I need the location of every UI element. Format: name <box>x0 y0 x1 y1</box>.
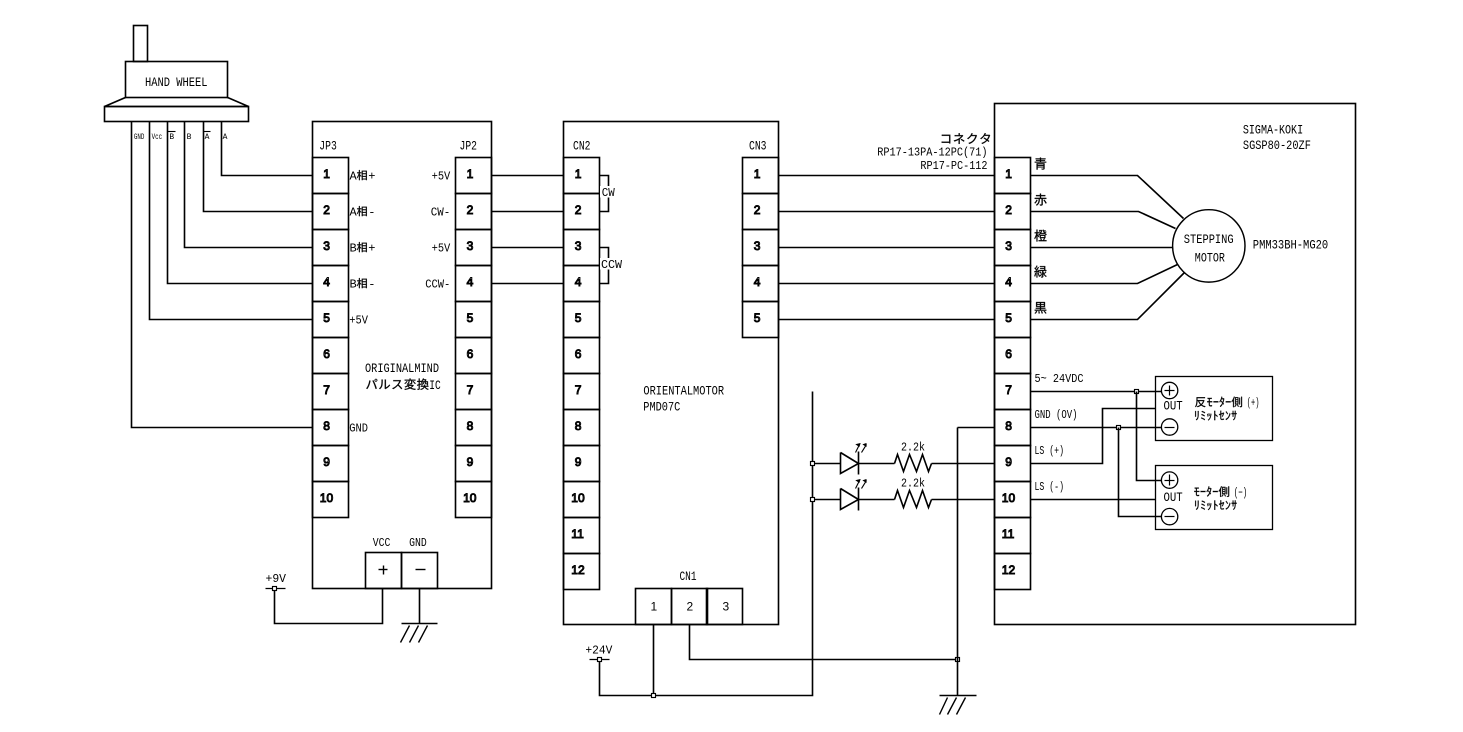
svg-text:B: B <box>350 277 357 291</box>
wire pin1 blue to motor <box>1031 176 1184 219</box>
svg-text:CCW: CCW <box>601 258 623 272</box>
junction CN1 pin1 rail <box>652 694 656 698</box>
wire JP2 pin3 to CN2 pin3 <box>492 247 564 249</box>
svg-text:PMM33BH-MG20: PMM33BH-MG20 <box>1253 238 1328 253</box>
svg-text:A: A <box>223 133 228 142</box>
svg-text:VCC: VCC <box>373 536 391 550</box>
LED D1 arrows <box>856 445 860 453</box>
connector CN3 pin 2 <box>743 194 779 230</box>
svg-text:2.2k: 2.2k <box>901 440 925 454</box>
svg-text:4: 4 <box>575 275 582 289</box>
svg-text:6: 6 <box>323 347 330 361</box>
wire resistor to connector pin9 <box>932 463 995 465</box>
svg-text:GND: GND <box>349 421 368 435</box>
connector JP2 pin 3 <box>456 230 492 266</box>
svg-text:1: 1 <box>323 167 330 181</box>
connector CN1 pin 2 <box>672 589 708 625</box>
hand wheel shaft <box>134 26 148 62</box>
stage connector pin 9 <box>995 446 1031 482</box>
connector JP2 pin 2 <box>456 194 492 230</box>
svg-text:JP2: JP2 <box>460 138 478 153</box>
node square at +24V <box>598 658 602 662</box>
wire GND box to ground <box>419 589 421 624</box>
svg-text:2.2k: 2.2k <box>901 477 925 491</box>
wire CN3 pin2 to connector pin2 <box>779 211 995 213</box>
svg-text:A: A <box>205 133 210 142</box>
connector CN1 pin 3 <box>707 589 743 625</box>
svg-text:7: 7 <box>467 383 474 397</box>
svg-text:9: 9 <box>1005 455 1012 469</box>
svg-text:2: 2 <box>467 203 474 217</box>
power +24V terminal <box>590 659 610 661</box>
svg-text:5: 5 <box>754 311 761 325</box>
svg-text:10: 10 <box>320 491 334 505</box>
svg-text:6: 6 <box>575 347 582 361</box>
svg-text:5: 5 <box>323 311 330 325</box>
CCW bracket CN2 pins 3-4 <box>600 248 609 284</box>
svg-text:6: 6 <box>467 347 474 361</box>
sensor2 plus terminal <box>1161 472 1177 488</box>
svg-text:10: 10 <box>1002 491 1016 505</box>
overline for /B <box>168 131 176 133</box>
resistor R1 2.2k <box>895 455 932 472</box>
svg-text:STEPPING: STEPPING <box>1184 232 1234 247</box>
wire CN3 pin1 to connector pin1 <box>779 175 995 177</box>
connector JP2 pin 6 <box>456 338 492 374</box>
LED D2 <box>841 489 859 510</box>
wire resistor to connector pin10 <box>932 499 995 501</box>
minus symbol in GND box <box>416 569 426 571</box>
wire color label blue <box>1035 158 1046 170</box>
svg-text:4: 4 <box>323 275 330 289</box>
svg-text:-: - <box>368 205 375 219</box>
connector CN2 pin 5 <box>564 302 600 338</box>
svg-text:SIGMA-KOKI: SIGMA-KOKI <box>1243 122 1303 137</box>
svg-text:5: 5 <box>1005 311 1012 325</box>
stage connector pin 7 <box>995 374 1031 410</box>
connector JP2 pin 4 <box>456 266 492 302</box>
connector CN3 pin 3 <box>743 230 779 266</box>
plus symbol in VCC box <box>379 569 388 571</box>
svg-text:3: 3 <box>754 239 761 253</box>
svg-text:JP3: JP3 <box>319 138 337 153</box>
connector CN2 pin 7 <box>564 374 600 410</box>
svg-text:RP17-PC-112: RP17-PC-112 <box>920 159 987 173</box>
connector CN2 pin 12 <box>564 554 600 590</box>
connector JP3 pin 1 <box>313 158 349 194</box>
GND terminal box <box>402 553 438 589</box>
connector JP2 pin 9 <box>456 446 492 482</box>
wire /B to JP3 pin4 <box>168 122 313 284</box>
svg-text:3: 3 <box>723 600 730 614</box>
svg-text:B: B <box>169 133 174 142</box>
wire LED to resistor R1 <box>859 463 895 465</box>
overline for /A <box>204 131 211 133</box>
svg-text:ORIGINALMIND: ORIGINALMIND <box>365 361 439 376</box>
stepping motor circle <box>1173 210 1245 282</box>
svg-text:+5V: +5V <box>349 313 368 327</box>
connector JP2 pin 8 <box>456 410 492 446</box>
svg-text:10: 10 <box>463 491 477 505</box>
svg-text:6: 6 <box>1005 347 1012 361</box>
svg-text:9: 9 <box>575 455 582 469</box>
wire A to JP3 pin1 <box>222 122 313 176</box>
sensor1 minus terminal <box>1161 419 1177 435</box>
svg-text:4: 4 <box>467 275 474 289</box>
svg-text:SGSP80-20ZF: SGSP80-20ZF <box>1243 138 1311 153</box>
svg-text:2: 2 <box>323 203 330 217</box>
hand wheel body <box>126 62 228 98</box>
wire pin2 red to motor <box>1031 212 1176 229</box>
connector JP2 pin 1 <box>456 158 492 194</box>
svg-text:-: - <box>368 277 375 291</box>
wire GND to JP3 pin8 <box>132 122 313 428</box>
wire LED to resistor R2 <box>859 499 895 501</box>
svg-text:11: 11 <box>571 527 584 541</box>
wire pin10 to sensor2 OUT <box>1031 499 1156 501</box>
wire pin8 to sensor1 minus <box>1031 427 1162 429</box>
svg-text:9: 9 <box>467 455 474 469</box>
svg-text:+: + <box>368 169 375 183</box>
wire B to JP3 pin3 <box>185 122 313 248</box>
connector CN2 pin 9 <box>564 446 600 482</box>
connector JP3 pin 6 <box>313 338 349 374</box>
resistor R2 2.2k <box>895 491 932 508</box>
motor driver board outline <box>564 122 779 625</box>
connector CN3 pin 5 <box>743 302 779 338</box>
wire color label black <box>1035 302 1047 314</box>
wire pin5 black to motor <box>1031 273 1185 320</box>
connector JP3 pin 3 <box>313 230 349 266</box>
svg-text:OUT: OUT <box>1164 400 1184 414</box>
LED D1 <box>841 453 859 474</box>
ground symbol at bottom <box>940 695 977 697</box>
svg-text:3: 3 <box>575 239 582 253</box>
junction square LED row 2 <box>811 498 815 502</box>
connector CN2 pin 4 <box>564 266 600 302</box>
pulse converter board outline <box>313 122 492 589</box>
connector CN3 pin 4 <box>743 266 779 302</box>
svg-text:(+): (+) <box>1247 396 1260 410</box>
connector JP3 pin 8 <box>313 410 349 446</box>
connector JP3 pin 4 <box>313 266 349 302</box>
svg-text:GND (OV): GND (OV) <box>1035 408 1078 422</box>
svg-text:3: 3 <box>1005 239 1012 253</box>
sensor2 minus terminal <box>1161 508 1177 524</box>
svg-text:12: 12 <box>571 563 585 577</box>
svg-text:3: 3 <box>467 239 474 253</box>
svg-text:5: 5 <box>467 311 474 325</box>
connector CN1 pin 1 <box>636 589 672 625</box>
wire pin9 to sensor1 OUT <box>1031 409 1156 464</box>
svg-text:8: 8 <box>323 419 330 433</box>
connector JP3 pin 7 <box>313 374 349 410</box>
svg-text:4: 4 <box>754 275 761 289</box>
sensor1 name anti-motor side (+) limit sensor <box>1195 397 1205 407</box>
stage connector pin 6 <box>995 338 1031 374</box>
stage connector pin 12 <box>995 554 1031 590</box>
svg-text:1: 1 <box>651 600 658 614</box>
svg-text:1: 1 <box>575 167 582 181</box>
stage connector pin 3 <box>995 230 1031 266</box>
connector JP2 pin 5 <box>456 302 492 338</box>
junction square pin7 branch <box>1135 390 1139 394</box>
junction square pin8 branch <box>1117 426 1121 430</box>
wire color label red <box>1034 194 1046 206</box>
connector CN2 pin 3 <box>564 230 600 266</box>
connector CN3 pin 1 <box>743 158 779 194</box>
connector CN2 pin 10 <box>564 482 600 518</box>
hand wheel base flange <box>105 98 249 107</box>
svg-text:PMD07C: PMD07C <box>643 399 680 414</box>
wire JP2 pin1 to CN2 pin1 <box>492 175 564 177</box>
hand wheel pin labels GND Vcc /B B /A A <box>134 133 228 142</box>
sensor2 name motor side (-) limit sensor <box>1194 486 1217 496</box>
connector CN2 pin 11 <box>564 518 600 554</box>
power +9V terminal <box>266 588 286 590</box>
wire supply branch to sensor2 plus <box>1137 392 1162 481</box>
stage connector pin 1 <box>995 158 1031 194</box>
svg-text:5~ 24VDC: 5~ 24VDC <box>1035 372 1084 386</box>
limit sensor box 1 <box>1156 377 1273 441</box>
svg-text:2: 2 <box>1005 203 1012 217</box>
connector CN2 pin 2 <box>564 194 600 230</box>
svg-text:ORIENTALMOTOR: ORIENTALMOTOR <box>643 383 724 398</box>
connector CN2 pin 1 <box>564 158 600 194</box>
svg-text:8: 8 <box>1005 419 1012 433</box>
svg-text:12: 12 <box>1002 563 1016 577</box>
connector JP3 pin 5 <box>313 302 349 338</box>
junction CN1 pin2 ground rail <box>956 658 960 662</box>
stage connector pin 11 <box>995 518 1031 554</box>
wire CN3 pin4 to connector pin4 <box>779 283 995 285</box>
junction square LED row 1 <box>811 462 815 466</box>
stage connector pin 4 <box>995 266 1031 302</box>
connector CN2 pin 8 <box>564 410 600 446</box>
svg-text:B: B <box>350 241 357 255</box>
connector JP3 pin 2 <box>313 194 349 230</box>
svg-text:CW-: CW- <box>431 205 451 219</box>
svg-text:GND: GND <box>409 536 427 550</box>
svg-text:9: 9 <box>323 455 330 469</box>
svg-text:HAND WHEEL: HAND WHEEL <box>145 75 208 90</box>
wire pin3 orange to motor <box>1031 247 1173 249</box>
connector JP3 pin 9 <box>313 446 349 482</box>
wire /A to JP3 pin2 <box>204 122 313 212</box>
sensor1 plus terminal <box>1161 382 1177 398</box>
connector JP3 pin 10 <box>313 482 349 518</box>
svg-text:7: 7 <box>1005 383 1012 397</box>
svg-text:RP17-13PA-12PC(71): RP17-13PA-12PC(71) <box>877 146 987 160</box>
wire CN1 pin2 to ground rail <box>690 625 958 660</box>
svg-text:1: 1 <box>467 167 474 181</box>
svg-text:(−): (−) <box>1234 486 1248 500</box>
LED D2 arrows <box>856 481 860 489</box>
wire Vcc to JP3 pin5 <box>150 122 313 320</box>
svg-text:7: 7 <box>575 383 582 397</box>
svg-text:GND: GND <box>134 133 145 142</box>
svg-text:CN3: CN3 <box>749 138 767 153</box>
CW bracket CN2 pins 1-2 <box>600 176 609 212</box>
svg-text:IC: IC <box>429 379 441 393</box>
wire JP2 pin4 to CN2 pin4 <box>492 283 564 285</box>
ground rail vertical wire <box>957 428 959 696</box>
wire CN1 pin1 to 24V rail <box>653 625 655 696</box>
connector JP2 pin 10 <box>456 482 492 518</box>
node square at +9V <box>273 587 277 591</box>
svg-text:+: + <box>368 241 375 255</box>
svg-text:10: 10 <box>571 491 585 505</box>
svg-text:4: 4 <box>1005 275 1012 289</box>
wire CN3 pin5 to connector pin5 <box>779 319 995 321</box>
connector JP2 pin 7 <box>456 374 492 410</box>
svg-text:+9V: +9V <box>266 572 287 586</box>
svg-text:Vcc: Vcc <box>152 133 163 142</box>
svg-text:CCW-: CCW- <box>425 277 450 291</box>
svg-text:LS (+): LS (+) <box>1035 444 1065 458</box>
svg-text:2: 2 <box>754 203 761 217</box>
svg-text:B: B <box>187 133 192 142</box>
wire JP2 pin2 to CN2 pin2 <box>492 211 564 213</box>
board1 name pulse conversion IC <box>366 378 428 389</box>
svg-text:3: 3 <box>323 239 330 253</box>
stage connector pin 8 <box>995 410 1031 446</box>
svg-text:CW: CW <box>602 186 616 200</box>
svg-text:8: 8 <box>575 419 582 433</box>
connector header label (konekuta) <box>942 133 990 144</box>
svg-text:+24V: +24V <box>585 643 613 657</box>
wire +24V to LED supply rail <box>600 392 813 696</box>
wire gnd branch to sensor2 minus <box>1119 428 1162 517</box>
svg-text:1: 1 <box>1005 167 1012 181</box>
svg-text:8: 8 <box>467 419 474 433</box>
svg-text:5: 5 <box>575 311 582 325</box>
stage connector pin 10 <box>995 482 1031 518</box>
wire CN3 pin3 to connector pin3 <box>779 247 995 249</box>
wire ground rail to connector pin8 <box>958 427 995 429</box>
svg-text:7: 7 <box>323 383 330 397</box>
wire +9V to VCC terminal <box>275 589 383 624</box>
svg-text:CN1: CN1 <box>680 569 697 584</box>
limit sensor box 2 <box>1156 466 1273 530</box>
svg-text:+5V: +5V <box>432 241 451 255</box>
svg-text:11: 11 <box>1002 527 1015 541</box>
wire pin4 green to motor <box>1031 265 1178 284</box>
svg-text:OUT: OUT <box>1164 491 1184 505</box>
svg-text:1: 1 <box>754 167 761 181</box>
svg-text:LS (-): LS (-) <box>1035 480 1065 494</box>
svg-text:MOTOR: MOTOR <box>1195 251 1225 266</box>
hand wheel base plate <box>105 107 249 122</box>
stage connector pin 2 <box>995 194 1031 230</box>
svg-text:2: 2 <box>687 600 694 614</box>
stage connector pin 5 <box>995 302 1031 338</box>
VCC terminal box <box>366 553 402 589</box>
svg-text:+5V: +5V <box>432 169 451 183</box>
wire 24V rail to LED 2 <box>813 499 841 501</box>
svg-text:A: A <box>350 169 358 183</box>
svg-text:A: A <box>350 205 358 219</box>
svg-text:CN2: CN2 <box>573 138 591 153</box>
wire 24V rail to LED 1 <box>813 463 841 465</box>
ground symbol under GND box <box>402 623 438 625</box>
svg-text:2: 2 <box>575 203 582 217</box>
connector CN2 pin 6 <box>564 338 600 374</box>
wire color label orange <box>1034 230 1046 242</box>
wire color label green <box>1034 266 1046 278</box>
wire pin7 to sensor1 plus <box>1031 391 1162 393</box>
stage box outline SIGMA-KOKI <box>995 104 1356 625</box>
